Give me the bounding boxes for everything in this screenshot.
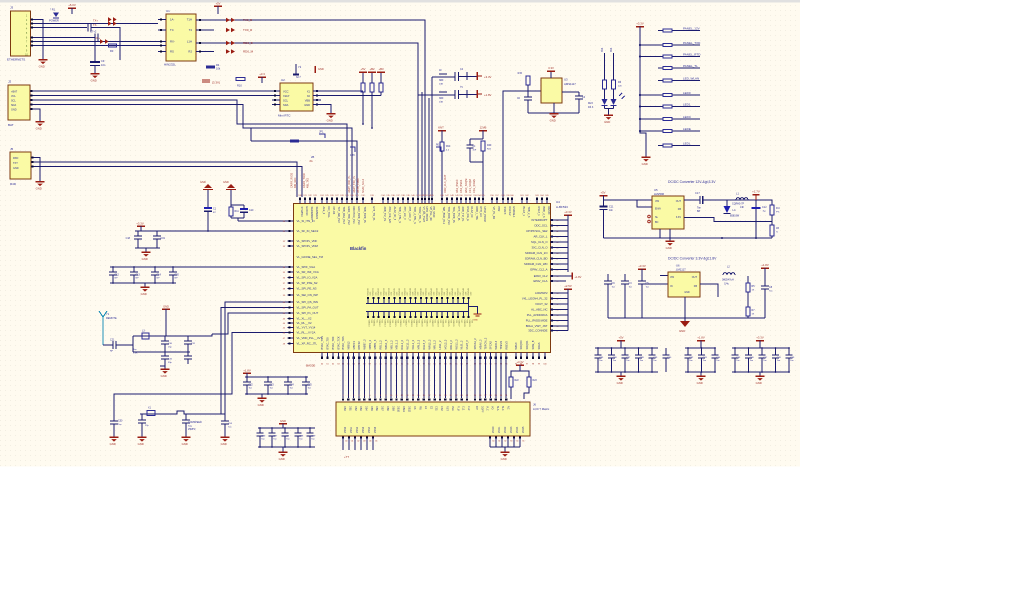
svg-text:TRB_I_TBL_S: TRB_I_TBL_S <box>398 207 402 224</box>
power +5V R6 <box>359 71 367 73</box>
svg-text:3DC_CONNDE: 3DC_CONNDE <box>528 329 547 333</box>
capacitor C13 <box>133 267 135 272</box>
capacitor C30 <box>164 336 166 341</box>
wire rs485 A long <box>31 162 297 197</box>
svg-text:C12: C12 <box>115 274 120 277</box>
svg-text:MBPF1: MBPF1 <box>352 340 356 349</box>
svg-text:VL_SPI_PE_N3: VL_SPI_PE_N3 <box>297 287 317 291</box>
svg-text:DB4: DB4 <box>365 406 368 411</box>
svg-text:DB5: DB5 <box>370 406 373 411</box>
capacitor C36b <box>469 139 471 145</box>
svg-text:VSS2: VSS2 <box>356 426 359 433</box>
svg-text:RESIN: RESIN <box>547 207 551 215</box>
svg-text:J2: J2 <box>8 80 12 84</box>
svg-text:VO: VO <box>491 406 494 410</box>
IC U4 Blackfin processor body <box>294 204 551 353</box>
svg-text:VL_SPI_IO_V2A: VL_SPI_IO_V2A <box>297 276 318 280</box>
svg-text:C10: C10 <box>249 209 254 212</box>
transformer marks T1 lower <box>100 39 104 44</box>
svg-text:C25: C25 <box>308 385 313 387</box>
svg-text:OUT: OUT <box>692 276 698 279</box>
svg-text:Y2: Y2 <box>298 65 302 69</box>
svg-text:ERV_BMK_PL0: ERV_BMK_PL0 <box>357 207 361 226</box>
svg-text:JP1: JP1 <box>319 130 324 134</box>
capacitor C40 <box>624 274 626 281</box>
toolbar strip top <box>0 0 800 3</box>
net arrows TX0_B etc <box>226 18 230 22</box>
svg-text:+5V: +5V <box>216 2 221 6</box>
svg-text:ALE_2: ALE_2 <box>322 207 326 215</box>
svg-text:3.3V: 3.3V <box>676 216 681 219</box>
capacitor C48 <box>775 348 777 355</box>
svg-text:CS1: CS1 <box>435 406 438 411</box>
svg-text:VL_SP_PXE_N2: VL_SP_PXE_N2 <box>297 281 318 285</box>
U4 top pin pads <box>299 198 301 204</box>
svg-text:NBL1_2: NBL1_2 <box>389 340 393 350</box>
ground GND rs485 <box>36 181 45 183</box>
svg-text:IN: IN <box>670 285 673 288</box>
svg-text:NP: NP <box>157 278 161 280</box>
wire rf rail <box>133 335 190 337</box>
svg-text:GND: GND <box>280 419 286 423</box>
resistor row LED_WLAN <box>658 80 700 82</box>
svg-text:RSL3_1: RSL3_1 <box>537 207 541 217</box>
svg-text:VDD24: VDD24 <box>442 320 444 328</box>
svg-text:VDD29: VDD29 <box>468 320 470 328</box>
wire U1 RX long <box>205 43 418 197</box>
svg-text:VDD22: VDD22 <box>431 320 433 328</box>
wire c7 branch <box>91 28 120 61</box>
svg-text:DDR_CLK_OUT: DDR_CLK_OUT <box>444 174 447 193</box>
wire feedback <box>684 218 772 222</box>
svg-text:VDD28: VDD28 <box>463 320 465 328</box>
svg-text:RGF/L2: RGF/L2 <box>508 207 512 217</box>
svg-text:3V3: 3V3 <box>601 47 604 52</box>
wire xtal rail <box>140 411 225 414</box>
svg-text:NRL1_3: NRL1_3 <box>433 340 437 350</box>
svg-text:Y1: Y1 <box>106 312 110 316</box>
resistor R17 <box>613 53 615 80</box>
svg-text:+1.8V: +1.8V <box>484 93 492 97</box>
wire rs485 gnd <box>31 158 40 182</box>
svg-text:DB1: DB1 <box>348 406 351 411</box>
svg-text:GND: GND <box>91 79 97 83</box>
capacitor C31 <box>187 336 189 341</box>
svg-text:GND: GND <box>258 403 264 407</box>
antenna ANT1 <box>99 311 107 345</box>
svg-text:RS: RS <box>170 50 174 54</box>
svg-text:SBCA1_2: SBCA1_2 <box>473 338 477 350</box>
feedback divider R19 <box>770 225 774 236</box>
capacitor C22 <box>246 377 248 382</box>
U2 right pins <box>313 90 321 92</box>
resistor R9 series <box>290 140 299 143</box>
svg-text:TX0_R: TX0_R <box>243 28 253 32</box>
svg-text:CL1: CL1 <box>462 406 465 411</box>
svg-text:RGL5_3: RGL5_3 <box>422 339 426 349</box>
svg-text:VCL: VCL <box>11 95 16 98</box>
svg-text:U4: U4 <box>556 200 560 204</box>
svg-text:EMR/AL1: EMR/AL1 <box>512 207 516 218</box>
svg-text:AR_CLK_L: AR_CLK_L <box>534 235 548 239</box>
wire J2 sda long <box>30 105 352 198</box>
module J6 LCD <box>336 402 530 436</box>
resistor R8 pullup <box>379 83 383 92</box>
LED D3 <box>613 89 615 99</box>
svg-text:RMA_ICE_E: RMA_ICE_E <box>466 207 470 222</box>
ground GND c50 <box>110 436 119 438</box>
svg-text:VL_SPI_QS_INN: VL_SPI_QS_INN <box>297 300 318 304</box>
svg-text:AMS1117: AMS1117 <box>564 82 576 86</box>
svg-text:UP/M_PROM: UP/M_PROM <box>483 207 487 222</box>
svg-text:LED1: LED1 <box>683 102 691 106</box>
connector J5 RS485 <box>10 152 31 179</box>
svg-text:GND: GND <box>617 381 623 385</box>
LED D1 power indicator <box>53 13 59 18</box>
capacitor C37 <box>624 348 626 355</box>
capacitor C33 low <box>187 352 189 356</box>
resistor R16 <box>604 53 606 80</box>
svg-text:LED0: LED0 <box>683 91 691 95</box>
capacitor C9 bulk <box>90 61 100 63</box>
svg-text:A-BF533: A-BF533 <box>556 205 568 209</box>
svg-text:DC/DC Converter 12V-&gt;3.3V: DC/DC Converter 12V-&gt;3.3V <box>668 180 716 184</box>
wire bank bottom rail <box>685 371 715 373</box>
wire U2 X1 to pullups <box>313 90 363 92</box>
svg-text:VL_XP_RC_JTL: VL_XP_RC_JTL <box>297 342 318 346</box>
U4 left pin pads <box>288 220 294 222</box>
svg-text:NP: NP <box>136 278 140 280</box>
svg-text:3V3: 3V3 <box>610 47 613 52</box>
svg-text:+5V: +5V <box>618 336 623 340</box>
svg-text:R.0: R.0 <box>776 207 780 210</box>
power +3.3V near rtc <box>258 76 266 78</box>
svg-text:BLA: BLA <box>496 406 499 411</box>
wire eth pin1 to gnd <box>31 20 44 60</box>
feedback divider R18 <box>770 205 774 215</box>
svg-text:25MHz: 25MHz <box>188 428 196 431</box>
svg-text:CAS_BMK1: CAS_BMK1 <box>460 179 463 193</box>
wire rf in <box>103 336 133 345</box>
svg-text:DB0: DB0 <box>343 406 346 411</box>
svg-text:XI/LP: XI/LP <box>283 94 290 98</box>
svg-text:VIN: VIN <box>670 276 674 279</box>
wire lcd gnd rail <box>490 447 520 452</box>
U3 top pin power <box>550 72 552 78</box>
svg-text:485_RXD: 485_RXD <box>294 177 297 188</box>
svg-text:DOFF: DOFF <box>480 406 483 413</box>
svg-text:+2.5V: +2.5V <box>564 284 572 288</box>
svg-text:WRL5_2: WRL5_2 <box>427 339 431 349</box>
U5 bottom pins <box>660 229 670 238</box>
svg-text:10n: 10n <box>101 63 106 67</box>
svg-text:NP: NP <box>115 278 119 280</box>
svg-text:GND: GND <box>642 162 648 166</box>
svg-text:TRB_PAA_PL3: TRB_PAA_PL3 <box>342 207 346 225</box>
svg-text:SDRAM_CLN_BD: SDRAM_CLN_BD <box>525 257 548 261</box>
wire c8 down <box>94 42 96 61</box>
svg-text:C12: C12 <box>762 206 767 209</box>
svg-text:+5.0V: +5.0V <box>68 3 76 7</box>
capacitor C45 <box>734 348 736 355</box>
svg-text:MZJ: MZJ <box>588 102 594 105</box>
led arrows <box>619 93 625 99</box>
jumper JP3 <box>436 147 441 152</box>
svg-text:EX/O10: EX/O10 <box>305 207 309 217</box>
svg-text:DB12: DB12 <box>407 406 410 413</box>
resistor row PANEL_TXD <box>640 44 700 46</box>
power bracket 3.3V <box>202 79 210 81</box>
svg-text:+1.8V: +1.8V <box>243 369 251 373</box>
capacitor C17 series <box>699 196 701 204</box>
wire led bus <box>640 27 646 158</box>
schematic sheet <box>0 3 800 467</box>
wire dcdc1 input <box>604 196 653 208</box>
svg-text:PLL_RVDD/WDE: PLL_RVDD/WDE <box>526 319 548 323</box>
svg-text:KNT: KNT <box>438 126 444 130</box>
ground GND bank S <box>261 394 263 398</box>
svg-text:LCD ? Matrix: LCD ? Matrix <box>533 407 550 411</box>
svg-text:NGL1_2: NGL1_2 <box>411 339 415 349</box>
svg-text:3.3V: 3.3V <box>548 66 554 70</box>
ground GND J2 <box>36 121 45 123</box>
svg-text:%: % <box>776 232 778 234</box>
svg-text:RAS_BMK0: RAS_BMK0 <box>456 179 459 193</box>
ground GND bank +3.3V <box>759 372 761 376</box>
svg-text:VDD19: VDD19 <box>415 320 417 328</box>
wire rail B bottom <box>110 282 176 284</box>
svg-text:C23: C23 <box>270 385 275 387</box>
wire right bus1 <box>551 219 569 221</box>
wire eth RX+ <box>31 37 96 39</box>
svg-text:GND: GND <box>223 180 229 184</box>
svg-text:SDQM1: SDQM1 <box>525 340 529 350</box>
svg-text:VCC: VCC <box>283 90 289 94</box>
jumper JP2 <box>350 147 355 152</box>
svg-text:VL_GIONE_SEL_TM: VL_GIONE_SEL_TM <box>297 255 324 259</box>
wire eth TX+ to U1 <box>31 23 159 25</box>
capacitor C28 <box>297 428 299 433</box>
svg-text:VSS1: VSS1 <box>350 426 353 433</box>
svg-text:C24: C24 <box>290 385 295 387</box>
svg-text:R4F: R4F <box>487 144 492 147</box>
svg-text:VL_SPI/Px_VDF: VL_SPI/Px_VDF <box>297 239 318 243</box>
svg-text:BTAC_TRS: BTAC_TRS <box>341 336 345 349</box>
svg-text:VDD20: VDD20 <box>420 320 422 328</box>
svg-text:FLM: FLM <box>456 406 459 411</box>
wires U4 to LCD module <box>342 353 344 399</box>
svg-text:BDLA_VWT_JNT: BDLA_VWT_JNT <box>526 324 548 328</box>
wire J2 gnd <box>30 109 40 121</box>
svg-text:C9: C9 <box>101 59 105 63</box>
ground GND U3 <box>550 113 559 115</box>
capacitor C29 <box>309 428 311 433</box>
svg-text:WBB7_3: WBB7_3 <box>363 339 367 350</box>
wire bank T bottom rail <box>258 446 315 448</box>
svg-text:GND: GND <box>221 442 227 446</box>
svg-text:LEDE: LEDE <box>683 127 691 131</box>
power GND flag rtc <box>314 66 316 73</box>
svg-text:DDC_SCL: DDC_SCL <box>534 224 548 228</box>
svg-text:VSS5: VSS5 <box>374 426 377 433</box>
svg-text:VL_SPI/Px_VDM: VL_SPI/Px_VDM <box>297 244 319 248</box>
svg-text:LEDL: LEDL <box>683 141 691 145</box>
capacitor C26 <box>259 428 261 433</box>
svg-text:J5: J5 <box>10 147 14 151</box>
wire dcdc2 in <box>642 276 668 285</box>
svg-text:BC: BC <box>655 221 659 224</box>
resistor R15 <box>526 76 530 85</box>
svg-text:GND: GND <box>182 442 188 446</box>
ground GND bank +5V <box>620 372 622 376</box>
sheet grid dots <box>0 3 800 467</box>
ground GND cluster A <box>145 248 147 252</box>
capacitor C47 <box>761 348 763 355</box>
svg-text:C18: C18 <box>126 237 131 240</box>
wire rf rail 2 <box>133 351 190 353</box>
svg-text:VL_VDD_PLL__3VT: VL_VDD_PLL__3VT <box>297 336 323 340</box>
wire long U4 to C50 <box>114 333 288 422</box>
svg-text:VDD15: VDD15 <box>394 320 396 328</box>
wire dcdc1 bottom rail <box>604 237 773 239</box>
svg-text:VL_SPI_PA_OUT: VL_SPI_PA_OUT <box>297 306 319 310</box>
wire serial row <box>251 140 290 142</box>
wire led rail <box>605 106 614 115</box>
svg-text:SCL: SCL <box>283 99 289 103</box>
capacitor C2 <box>284 428 286 433</box>
svg-text:CP-O4: CP-O4 <box>332 207 336 215</box>
svg-text:VSS0: VSS0 <box>344 426 347 433</box>
svg-text:VOUT_32: VOUT_32 <box>535 302 548 306</box>
svg-text:RST: RST <box>446 406 449 411</box>
svg-text:X2: X2 <box>307 94 311 98</box>
svg-text:VL_SF_IN_SEC2: VL_SF_IN_SEC2 <box>297 229 319 233</box>
ground GND cluster B <box>144 283 146 287</box>
svg-text:REMOTE: REMOTE <box>106 317 117 320</box>
svg-text:T1H: T1H <box>187 18 192 22</box>
svg-text:C22: C22 <box>249 385 254 387</box>
svg-text:R3: R3 <box>110 49 114 53</box>
svg-text:SPCA3: SPCA3 <box>489 341 493 350</box>
wire reg input down to U4 <box>503 91 541 197</box>
svg-text:ZRB_TM_PL: ZRB_TM_PL <box>383 207 387 222</box>
ground GND led bank <box>642 156 651 158</box>
wire eth pin6 <box>31 45 159 47</box>
svg-text:TBEVM: TBEVM <box>499 341 503 350</box>
svg-text:TX+: TX+ <box>93 19 98 23</box>
wire U6 out <box>700 284 718 297</box>
wire dcdc2 bottom rail <box>608 317 765 319</box>
svg-text:GND: GND <box>666 246 672 250</box>
svg-text:DRC/TXX_PL1: DRC/TXX_PL1 <box>352 207 356 225</box>
svg-text:GND: GND <box>697 381 703 385</box>
wire bank S bottom rail <box>245 393 308 395</box>
svg-text:C19: C19 <box>161 237 166 240</box>
svg-text:SDA: SDA <box>11 104 16 107</box>
svg-text:PANEL_TXD: PANEL_TXD <box>683 41 701 45</box>
svg-text:TX-: TX- <box>93 23 97 27</box>
inductor L3 <box>142 333 149 339</box>
svg-text:PA4: PA4 <box>446 145 451 148</box>
svg-text:VDD1: VDD1 <box>498 426 501 433</box>
svg-text:C7+2: C7+2 <box>90 30 97 34</box>
svg-text:J6: J6 <box>533 403 536 407</box>
svg-text:+3.3V: +3.3V <box>756 336 764 340</box>
svg-text:SDA0_SCL0: SDA0_SCL0 <box>362 178 365 193</box>
svg-text:VIN: VIN <box>655 200 659 203</box>
svg-text:TRA_BMK_PL: TRA_BMK_PL <box>452 207 456 224</box>
svg-text:FB: FB <box>694 285 698 288</box>
svg-text:VDD2: VDD2 <box>504 426 507 433</box>
svg-text:+1.7V: +1.7V <box>752 190 760 194</box>
svg-text:EWX_TBK_PL2: EWX_TBK_PL2 <box>347 207 351 226</box>
ground GND rf <box>164 366 166 369</box>
LCD bottom pins right <box>489 436 491 438</box>
svg-text:TBPCM_2: TBPCM_2 <box>484 337 488 349</box>
svg-text:VEE: VEE <box>451 406 454 411</box>
LED D2 <box>604 89 606 99</box>
svg-text:RBPF2: RBPF2 <box>357 341 361 350</box>
svg-text:24B: 24B <box>439 84 443 86</box>
ground GND dcdc1 <box>669 238 671 241</box>
wire xtal to U4 xtal2 <box>225 302 288 414</box>
wire bank T top rail <box>258 427 315 429</box>
svg-text:NP: NP <box>110 351 114 353</box>
U4 comb join and gnd <box>469 304 478 315</box>
LCD bottom pins left <box>342 436 344 438</box>
wire U1 pin stub a <box>205 29 214 31</box>
diode D4 catch <box>726 200 728 206</box>
svg-text:GND: GND <box>11 109 17 112</box>
svg-text:7V: 7V <box>460 86 463 89</box>
svg-text:RRB_I_TBL: RRB_I_TBL <box>475 207 479 221</box>
svg-text:HIN232L: HIN232L <box>164 63 176 67</box>
svg-text:ZMA_ICE_E/C: ZMA_ICE_E/C <box>388 207 392 224</box>
svg-text:C/4u: C/4u <box>724 284 730 286</box>
svg-text:EN/A: EN/A <box>655 208 661 211</box>
svg-text:TC: TC <box>170 28 174 32</box>
svg-text:[3.3V]: [3.3V] <box>212 81 220 85</box>
wire eth RX- <box>31 41 159 43</box>
svg-text:VXL_LEON4_PL_32: VXL_LEON4_PL_32 <box>522 297 548 301</box>
svg-text:+5V: +5V <box>600 191 605 195</box>
svg-text:GND: GND <box>39 65 45 69</box>
U1 left pins <box>158 19 166 21</box>
svg-text:BLG3_1: BLG3_1 <box>522 207 526 217</box>
ground GND bank +1.8V <box>700 372 702 376</box>
svg-text:VDD0: VDD0 <box>492 426 495 433</box>
svg-text:MBAV_3: MBAV_3 <box>478 339 482 349</box>
ground GND dcdc2 <box>680 321 690 327</box>
U4 right pin pads <box>551 219 553 221</box>
svg-text:+3.3V: +3.3V <box>638 264 646 268</box>
capacitor C24 <box>287 377 289 382</box>
svg-text:UART_RX0_PL: UART_RX0_PL <box>348 175 351 193</box>
svg-text:DB11: DB11 <box>402 406 405 412</box>
svg-text:VDD16: VDD16 <box>399 320 401 328</box>
capacitor C46 <box>748 348 750 355</box>
svg-text:VDD10: VDD10 <box>367 320 369 328</box>
capacitor C4 series row1 <box>454 72 456 81</box>
svg-text:CS2: CS2 <box>440 406 443 411</box>
wire L1 out <box>748 200 772 205</box>
vertical wire from serial to ic <box>250 128 252 141</box>
svg-text:WBL1_3: WBL1_3 <box>384 339 388 349</box>
U4 internal comb bus upper <box>366 303 469 305</box>
svg-text:J3: J3 <box>10 6 14 10</box>
resistor R14 <box>481 141 485 151</box>
wire right bus2 <box>551 292 569 294</box>
